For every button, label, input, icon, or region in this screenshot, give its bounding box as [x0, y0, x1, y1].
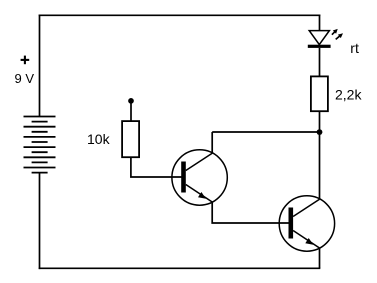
wire terminal to resistor R1 — [130, 102, 132, 121]
transistor Q1 (NPN) — [172, 150, 227, 205]
svg-text:10k: 10k — [87, 131, 111, 147]
wire left rail upper (battery + to top rail) — [39, 15, 41, 117]
wire node A to Q1 collector — [212, 131, 319, 133]
LED D1 rt — [308, 31, 331, 48]
wire resistor R2 to node A — [319, 111, 321, 132]
wire LED cathode to resistor R2 — [319, 48, 321, 77]
label battery polarity + — [21, 56, 30, 65]
resistor R1 10k — [122, 121, 139, 157]
wire bottom rail — [39, 267, 321, 269]
wire node A down to Q2 collector — [319, 132, 321, 199]
svg-text:rt: rt — [350, 40, 359, 56]
terminal dot (open input) — [128, 98, 134, 104]
wire left rail lower (battery - to bottom rail) — [39, 173, 41, 270]
wire LED anode (top rail to LED) — [319, 15, 321, 31]
battery BT1 9V — [24, 117, 56, 173]
wire Q1 collector vertical — [211, 132, 213, 153]
wire Q1 emitter to Q2 base — [212, 202, 289, 223]
svg-text:2,2k: 2,2k — [335, 87, 362, 103]
transistor Q2 (NPN) — [279, 196, 334, 251]
node A junction dot — [317, 129, 323, 135]
resistor R2 2,2k — [311, 76, 328, 111]
wire top rail — [39, 14, 321, 16]
wire resistor R1 to Q1 base — [131, 157, 182, 177]
LED light emission arrows — [332, 29, 343, 40]
svg-text:9 V: 9 V — [15, 71, 35, 86]
wire Q2 emitter to bottom rail — [319, 248, 321, 268]
